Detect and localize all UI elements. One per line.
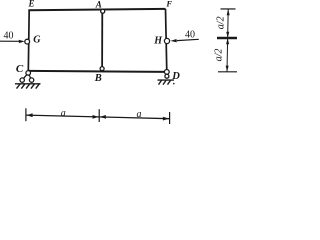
force arrow right 40	[170, 39, 198, 42]
support D hatch dot	[173, 83, 175, 85]
support D roller	[165, 74, 169, 78]
dimension right top tick	[221, 8, 236, 10]
hinge C	[26, 71, 31, 76]
svg-text:D: D	[171, 71, 180, 82]
support C hatching	[17, 84, 40, 89]
svg-text:a: a	[61, 108, 66, 119]
member CD bottom beam	[28, 71, 167, 72]
svg-text:E: E	[27, 0, 34, 9]
hinge G	[25, 39, 30, 44]
svg-text:a/2: a/2	[213, 49, 224, 62]
dimension bottom right tick	[169, 112, 171, 124]
svg-text:B: B	[94, 73, 102, 84]
force arrow left 40	[0, 40, 25, 43]
dimension bottom left tick	[25, 108, 27, 121]
hinge H	[164, 38, 169, 43]
member AB middle column	[101, 9, 103, 69]
support C legs	[22, 73, 31, 80]
svg-text:a: a	[137, 109, 142, 120]
member FD right column	[166, 9, 167, 72]
svg-text:40: 40	[185, 29, 195, 40]
hinge B	[100, 67, 104, 71]
svg-text:a/2: a/2	[215, 16, 226, 29]
support C roller left	[20, 78, 24, 82]
svg-text:G: G	[33, 35, 41, 46]
svg-text:C: C	[16, 63, 24, 75]
support C roller right	[29, 78, 33, 82]
hinge D	[164, 70, 169, 75]
support C ground line	[15, 83, 41, 85]
svg-text:A: A	[95, 0, 102, 9]
dim arrow left after middle tick	[100, 115, 106, 119]
dim arrow down at bottom tick	[226, 66, 229, 72]
hinge A	[101, 9, 105, 13]
support D hatching	[159, 80, 171, 84]
dim arrow up below middle tick	[226, 38, 229, 44]
support D ground line	[158, 79, 175, 81]
dim arrow right at right tick	[163, 117, 169, 121]
dimension right vertical line	[227, 9, 228, 71]
dimension right middle tick	[217, 37, 237, 40]
dimension bottom line	[26, 115, 170, 119]
dim arrow up at top tick	[227, 9, 230, 15]
svg-text:H: H	[153, 35, 163, 46]
dim arrow right before middle tick	[93, 115, 99, 119]
dim arrow left at left tick	[26, 113, 32, 117]
member EC left column	[27, 10, 30, 72]
svg-text:F: F	[165, 0, 172, 9]
svg-text:40: 40	[4, 30, 14, 41]
member EF top beam	[28, 9, 165, 10]
dimension bottom middle tick	[98, 109, 100, 122]
dim arrow down above middle tick	[226, 32, 229, 38]
dimension right bottom tick	[218, 71, 237, 73]
